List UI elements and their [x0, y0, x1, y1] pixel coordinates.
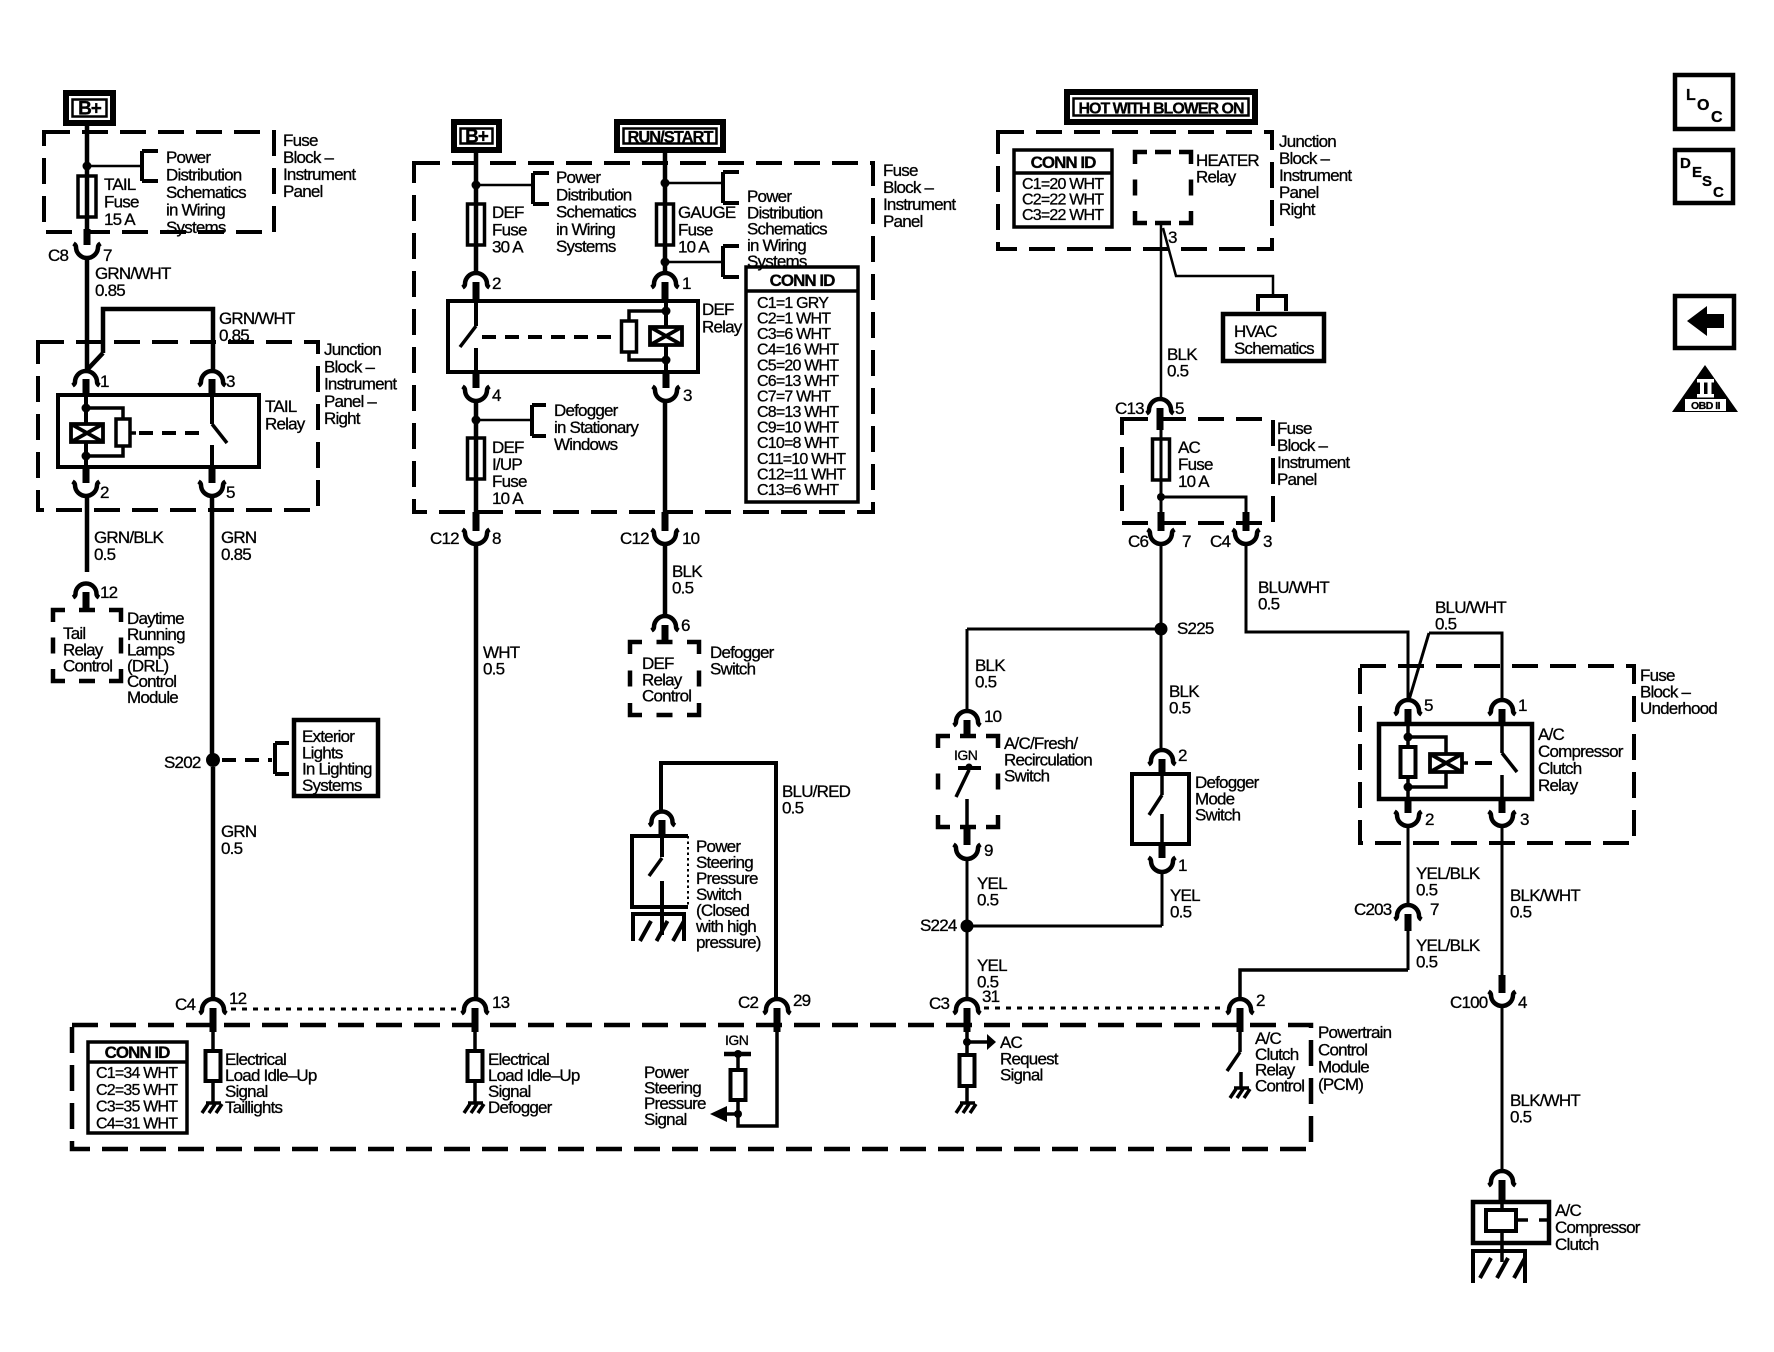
svg-text:6: 6 [681, 616, 690, 635]
wire C3 into PCM [965, 1032, 969, 1055]
svg-text:S225: S225 [1177, 619, 1214, 638]
svg-text:C4: C4 [175, 995, 195, 1014]
connector pin 10 stub [964, 720, 971, 738]
defog mode switch lower lead [1160, 814, 1164, 844]
DEF relay pin 3 stub [663, 372, 670, 388]
wire TAIL relay coil lead [84, 395, 88, 467]
svg-text:B+: B+ [465, 127, 489, 148]
PSP signal arrowhead [710, 1106, 727, 1122]
recirc switch blade [956, 770, 969, 797]
svg-text:IGN: IGN [954, 747, 977, 763]
icon back-arrow [1687, 306, 1724, 336]
svg-text:D: D [1680, 155, 1691, 172]
svg-text:1: 1 [682, 274, 691, 293]
bracket Power Distribution (GAUGE) [723, 172, 739, 203]
wire pin 4 through DEF I/UP fuse to C12-8 [474, 401, 479, 520]
connector pin 1 stub (defog mode) [1159, 844, 1166, 858]
wire C203 to PCM pin 2 [1407, 931, 1410, 970]
resistor DEF relay [622, 321, 637, 352]
coil nub A/C relay [1462, 761, 1468, 765]
icon OBD II label box [1685, 399, 1726, 411]
power symbol HOT WITH BLOWER ON [1067, 92, 1255, 122]
connector C12 pin 8 stub [473, 512, 480, 531]
wire pin 2 YEL/BLK to C203 [1407, 826, 1410, 905]
wire GRN/WHT loop to relay pin 3 [103, 309, 213, 370]
svg-text:1: 1 [1518, 696, 1527, 715]
wire node to CONN ID bracket [665, 261, 723, 264]
fuse block instrument panel dashed box (AC) [1122, 419, 1273, 523]
ground A/C clutch relay control [1230, 1088, 1250, 1098]
svg-text:5: 5 [1175, 399, 1184, 418]
coil A/C compressor clutch [1486, 1210, 1516, 1231]
wire loop diagonal into pin 1 [87, 353, 103, 370]
wire C4-3 BLU/WHT to relay pin 5 [1246, 544, 1408, 701]
svg-text:3: 3 [226, 372, 235, 391]
connector C6 pin 7 stub [1158, 512, 1165, 531]
A/C relay coil branch [1408, 737, 1446, 787]
AC request arrowhead [987, 1034, 996, 1050]
svg-text:3: 3 [1520, 810, 1529, 829]
table CONN ID PCM [88, 1042, 187, 1133]
svg-text:O: O [1697, 97, 1709, 114]
ground taillights [202, 1103, 222, 1113]
dashed armature link A/C relay [1475, 761, 1496, 765]
svg-text:5: 5 [226, 483, 235, 502]
dotted same-connector line C3-31 to 2 [984, 1007, 1226, 1010]
connector C12 pin 10 stub [662, 512, 669, 531]
svg-text:TAILFuse15 A: TAILFuse15 A [104, 175, 139, 229]
svg-text:4: 4 [492, 386, 501, 405]
svg-text:C6: C6 [1128, 532, 1148, 551]
connector C4 pin 3 cup [1233, 530, 1260, 545]
PSP switch blade [649, 858, 662, 876]
node below GAUGE fuse [661, 258, 670, 267]
svg-text:2: 2 [1256, 991, 1265, 1010]
connector C8 pin 7 cup [74, 244, 101, 259]
connector C2 pin 29 stub [774, 1008, 781, 1032]
coil link dashes [1517, 1218, 1548, 1222]
TAIL relay pin 1 cap [73, 371, 100, 386]
node junction below B+ (middle) [472, 181, 481, 190]
PSP switch upper lead [660, 836, 664, 857]
svg-text:31: 31 [982, 987, 1000, 1006]
defog mode switch blade [1149, 795, 1162, 815]
node coil top [82, 404, 91, 413]
icon DESC box [1675, 150, 1733, 203]
wire C2-29 loop inside PCM [738, 1032, 777, 1126]
DEF relay switch lower lead [474, 348, 478, 372]
TAIL relay pin 3 cap [199, 371, 226, 386]
fuse block underhood dashed box [1360, 666, 1634, 843]
connector C12 pin 8 cup [463, 530, 490, 545]
TAIL relay switch blade [212, 424, 227, 443]
PSP switch lower lead [660, 881, 664, 935]
wire RUN/START to GAUGE fuse [663, 153, 668, 273]
connector pin 6 cap [652, 616, 679, 631]
node PSP signal junction [734, 1110, 742, 1118]
svg-text:3: 3 [1168, 228, 1177, 247]
wire C13 to AC fuse [1160, 430, 1163, 514]
relay DEF box [448, 301, 698, 372]
coil X-box A/C relay [1430, 754, 1462, 772]
svg-text:2: 2 [100, 483, 109, 502]
connector pin 2 stub (PCM) [1237, 1008, 1244, 1032]
svg-text:7: 7 [103, 246, 112, 265]
svg-text:12: 12 [229, 989, 247, 1008]
svg-text:C: C [1713, 184, 1724, 201]
svg-text:OBD II: OBD II [1691, 400, 1721, 412]
fuse block instrument panel dashed box (middle) [414, 163, 873, 512]
node AC request junction [963, 1038, 971, 1046]
wire C8 to TAIL relay pin 1 GRN/WHT [85, 258, 90, 371]
splice S202 [206, 753, 220, 767]
node IGN bar (PSP) [734, 1050, 742, 1058]
wire DEF relay coil lead [664, 301, 668, 372]
wire S224 horizontal [967, 925, 1162, 928]
svg-text:DEFI/UPFuse10 A: DEFI/UPFuse10 A [492, 438, 527, 508]
recirc switch lower lead [965, 799, 969, 827]
svg-text:C: C [1711, 109, 1723, 126]
connector pin 12 stub [83, 592, 90, 610]
svg-text:L: L [1686, 87, 1696, 104]
recirculation switch dashed box [938, 736, 998, 827]
TAIL relay switch lower lead [210, 445, 214, 467]
wire clutch to ground [1500, 1243, 1504, 1262]
wire S225 to defogger mode switch [1160, 629, 1163, 751]
IGN feed bar (PSP) [724, 1052, 751, 1057]
defogger switch dashed box DEF Relay Control [630, 642, 699, 715]
A/C relay pin 2 cup [1395, 812, 1422, 827]
power symbol RUN/START [617, 122, 723, 150]
table CONN ID right [1014, 150, 1112, 227]
A/C relay pin 1 stub [1499, 709, 1506, 726]
wire resistor to IGN bar [736, 1055, 740, 1070]
power symbol B+ (defogger circuit) [454, 122, 499, 150]
TAIL relay switch fixed lead [210, 395, 214, 424]
A/C relay switch fixed lead [1500, 724, 1504, 753]
wire B+ to DEF fuse through fuse [474, 153, 479, 273]
svg-text:S224: S224 [920, 916, 957, 935]
svg-text:IGN: IGN [725, 1032, 748, 1048]
bracket Power Distribution (DEF) [533, 173, 549, 204]
node coil bottom [82, 452, 91, 461]
ground defogger load [464, 1103, 484, 1113]
svg-text:C203: C203 [1354, 900, 1392, 919]
A/C relay switch lower lead [1500, 775, 1504, 799]
wire pin 1 YEL to S224 [1161, 872, 1164, 926]
wire C100 BLK/WHT to compressor clutch [1501, 1006, 1504, 1172]
svg-text:C12: C12 [620, 529, 649, 548]
DRL module dashed box Tail Relay Control [53, 610, 121, 681]
svg-text:RUN/START: RUN/START [627, 129, 713, 147]
connector C4 pin 3 stub [1243, 512, 1250, 531]
box power steering pressure switch [632, 836, 688, 907]
svg-text:C4: C4 [1210, 532, 1230, 551]
A/C relay pin 3 cup [1489, 812, 1516, 827]
connector pin 10 cap (recirc) [954, 711, 981, 726]
IGN bar (recirc) [958, 766, 981, 770]
bracket Power Distribution reference [142, 151, 158, 181]
wire C6-7 BLK to S225 [1160, 544, 1163, 629]
connector C13 pin 5 stub [1157, 408, 1164, 430]
wire jumper to pin 1 [1429, 633, 1502, 701]
svg-text:C13: C13 [1115, 399, 1144, 418]
box HVAC Schematics [1223, 314, 1324, 361]
node DEF coil top [662, 307, 671, 316]
connector pin 6 stub [662, 625, 669, 643]
connector C3 pin 31 stub [964, 1008, 971, 1032]
bracket CONN ID (GAUGE) [723, 246, 739, 277]
svg-text:9: 9 [984, 841, 993, 860]
wire heater relay pin 3 to C13 BLK [1160, 223, 1163, 400]
wire S202 to C4 pin 12 [211, 767, 216, 1000]
wire pin5 jumper diagonal [1409, 633, 1429, 700]
wire DEF relay pin 3 down [663, 401, 668, 520]
svg-text:C3: C3 [929, 994, 949, 1013]
dashed armature link DEF relay [482, 335, 612, 339]
relay A/C compressor clutch box [1379, 724, 1532, 799]
DEF relay pin 3 cup [653, 387, 680, 402]
box defogger mode switch [1132, 774, 1189, 844]
wire resistor to ground (taillights) [211, 1081, 215, 1104]
resistor side nub [130, 431, 136, 435]
svg-text:CONN ID: CONN ID [770, 271, 836, 290]
connector pin 9 cup [954, 845, 981, 860]
resistor AC request (PCM) [960, 1055, 975, 1086]
DEF relay pin 2 stub [473, 282, 480, 301]
svg-text:12: 12 [100, 583, 118, 602]
resistor A/C relay [1401, 747, 1416, 777]
node junction below RUN/START [661, 179, 670, 188]
wire pin 5 GRN down to S202 [210, 496, 215, 758]
TAIL relay pin 3 stub [209, 379, 216, 395]
connector C4 pin 12 stub [210, 1008, 217, 1032]
svg-text:E: E [1692, 164, 1702, 181]
svg-text:4: 4 [1518, 993, 1527, 1012]
svg-text:8: 8 [492, 529, 501, 548]
wire junction to bracket (gauge top) [665, 182, 723, 185]
wire S225 to recirculation switch [966, 629, 969, 712]
svg-text:3: 3 [1263, 532, 1272, 551]
A/C relay pin 5 stub [1405, 709, 1412, 726]
wire pin 9 YEL to S224 [966, 859, 969, 926]
relay HEATER dashed box [1135, 152, 1191, 223]
power symbol B+ (battery feed, TAIL circuit) [66, 93, 113, 123]
svg-text:DEFFuse30 A: DEFFuse30 A [492, 203, 527, 257]
compressor clutch connector stub [1499, 1180, 1506, 1202]
svg-text:2: 2 [1178, 746, 1187, 765]
svg-text:3: 3 [683, 386, 692, 405]
DEF relay switch blade [460, 326, 476, 347]
wire C12-8 WHT down to pin 13 [474, 544, 479, 1000]
A/C relay coil lead [1406, 724, 1410, 799]
PSP box dotted right edge [687, 836, 689, 907]
connector C2 pin 29 cap [764, 999, 791, 1014]
node IGN bar (recirc) [966, 764, 973, 771]
connector pin 2 cap (defog mode) [1149, 750, 1176, 765]
wire S224 to C3-31 YEL [966, 926, 969, 1000]
connector C6 pin 7 cup [1148, 530, 1175, 545]
fuse DEF I/UP 10A [468, 438, 485, 479]
bracket HVAC schematics [1256, 296, 1288, 311]
svg-text:2: 2 [1425, 810, 1434, 829]
dotted same-connector line C4-12 to 13 [231, 1008, 462, 1011]
connector pin 13 stub [472, 1008, 479, 1032]
fuse AC 10A [1153, 439, 1170, 480]
compressor clutch connector cap [1489, 1171, 1516, 1186]
svg-text:B+: B+ [78, 99, 102, 120]
svg-text:C2: C2 [738, 993, 758, 1012]
connector pin 13 cap (PCM) [462, 999, 489, 1014]
DEF relay pin 4 cup [463, 387, 490, 402]
svg-text:1: 1 [1178, 856, 1187, 875]
connector C12 pin 10 cup [652, 530, 679, 545]
fuse TAIL 15A [78, 176, 96, 217]
icon back-arrow box [1675, 296, 1734, 348]
TAIL relay resistor branch [86, 408, 123, 456]
node below AC fuse [1157, 493, 1165, 501]
wire B+ to TAIL fuse [85, 126, 90, 236]
DEF relay pin 2 cap [463, 273, 490, 288]
wire pin 2 GRN/BLK [85, 496, 90, 572]
svg-text:7: 7 [1430, 900, 1439, 919]
relay TAIL box [58, 395, 259, 467]
connector C13 pin 5 cap [1147, 399, 1174, 414]
DEF relay switch fixed lead [474, 301, 478, 326]
box A/C compressor clutch [1473, 1202, 1549, 1243]
TAIL relay pin 2 cup [73, 482, 100, 497]
DEF relay pin 1 stub [662, 282, 669, 301]
svg-text:CONN ID: CONN ID [1031, 153, 1097, 172]
PCM dashed box [72, 1025, 1311, 1149]
PSP connector stub [659, 820, 666, 836]
resistor TAIL relay [116, 419, 130, 446]
A/C clutch relay control lower lead [1239, 1072, 1243, 1088]
A/C relay pin 5 cap [1395, 700, 1422, 715]
dashed armature link TAIL relay [139, 431, 205, 435]
svg-text:C12: C12 [430, 529, 459, 548]
svg-text:5: 5 [1424, 696, 1433, 715]
icon LOC box [1675, 75, 1733, 129]
resistor electrical load idle-up taillights [206, 1051, 221, 1081]
PSP connector cap [649, 812, 675, 826]
TAIL relay pin 5 stub [209, 467, 216, 483]
wire resistor to ground (defogger) [473, 1081, 477, 1104]
fuse GAUGE 10A [657, 204, 674, 245]
connector pin 1 cup (defog mode) [1149, 858, 1176, 873]
connector C3 pin 31 cap [954, 999, 981, 1014]
bracket exterior lights [275, 743, 289, 774]
connector C100 pin 4 stub [1499, 975, 1506, 993]
svg-text:S: S [1702, 173, 1712, 190]
wire AC fuse branch to C4-3 [1161, 497, 1246, 516]
A/C relay switch blade [1502, 753, 1517, 772]
resistor IGN pull-up (PSP) [731, 1070, 746, 1100]
DEF relay pin 1 cap [652, 273, 679, 288]
connector pin 2 stub (defog mode) [1159, 759, 1166, 775]
node A/C coil top [1404, 733, 1413, 742]
wire junction to reference bracket [87, 165, 142, 168]
resistor electrical load idle-up defogger [468, 1051, 483, 1081]
junction block dashed box (right) [998, 132, 1272, 249]
icon OBD II pillars [1697, 379, 1714, 398]
svg-text:C1=20 WHTC2=22 WHTC3=22 WHT: C1=20 WHTC2=22 WHTC3=22 WHT [1022, 176, 1104, 224]
svg-text:C1=34 WHTC2=35 WHTC3=35 WHTC4=: C1=34 WHTC2=35 WHTC3=35 WHTC4=31 WHT [96, 1065, 178, 1132]
A/C relay pin 3 stub [1499, 799, 1506, 813]
splice S224 [961, 920, 974, 933]
svg-text:CONN ID: CONN ID [105, 1043, 171, 1062]
node junction below B+ [83, 162, 92, 171]
svg-text:10: 10 [682, 529, 700, 548]
ground rake PSP [631, 914, 686, 941]
svg-text:2: 2 [492, 274, 501, 293]
A/C relay pin 2 stub [1405, 799, 1412, 813]
icon OBD II triangle [1672, 365, 1738, 412]
wire pin 3 BLK/WHT to C100 [1501, 826, 1504, 993]
wire junction to resistor (PCM) [736, 1100, 740, 1114]
resistor DEF relay branch wires [629, 311, 666, 360]
TAIL relay pin 1 stub [83, 379, 90, 395]
wire resistor to ground (AC request) [965, 1086, 969, 1104]
svg-text:C8: C8 [48, 246, 68, 265]
wire into defogger load resistor [473, 1032, 477, 1051]
wire S225 branch left [967, 628, 1161, 631]
wire into taillight load resistor [211, 1032, 215, 1051]
node DEF coil bottom [662, 356, 671, 365]
wire junction to bracket (middle B+) [476, 184, 533, 187]
fuse DEF 30A [468, 204, 485, 245]
defog mode switch upper lead [1160, 774, 1164, 795]
ground rake compressor clutch [1471, 1251, 1527, 1283]
wire C12-10 BLK to pin 6 [663, 544, 668, 617]
A/C clutch relay control blade [1227, 1052, 1240, 1071]
connector C4 pin 12 cap [200, 999, 227, 1014]
svg-text:C100: C100 [1450, 993, 1488, 1012]
coil X-box DEF relay [650, 327, 682, 345]
splice S225 [1155, 623, 1168, 636]
TAIL relay pin 2 stub [83, 467, 90, 483]
wire to defogger bracket [476, 419, 532, 422]
connector C203 pin 7 cap [1395, 905, 1422, 920]
wire BLU/RED loop PSP to C2 [661, 763, 776, 1000]
A/C relay pin 1 cap [1489, 700, 1516, 715]
bracket Defogger in Stationary Windows [532, 405, 546, 436]
compressor clutch coil lead [1500, 1202, 1504, 1243]
svg-text:HOT WITH BLOWER ON: HOT WITH BLOWER ON [1078, 101, 1244, 118]
connector C8 pin 7 stub [84, 229, 91, 245]
wire PCM pin 2 loop to C203 [1240, 970, 1408, 1000]
fuse block instrument panel dashed box (left) [44, 132, 274, 232]
node defogger stationary branch [472, 416, 481, 425]
dashed link S202 to lighting systems [222, 758, 272, 762]
ground AC request [956, 1103, 976, 1113]
AC request arrow line [967, 1040, 988, 1044]
A/C clutch relay control lead [1238, 1032, 1242, 1052]
PSP signal arrow line [726, 1112, 738, 1116]
svg-text:1: 1 [100, 372, 109, 391]
coil X-box TAIL relay [71, 424, 103, 442]
svg-text:10: 10 [984, 707, 1002, 726]
TAIL relay pin 5 cup [199, 482, 226, 497]
connector pin 2 cap (PCM) [1227, 999, 1254, 1014]
svg-text:29: 29 [793, 991, 811, 1010]
svg-text:7: 7 [1182, 532, 1191, 551]
connector pin 12 cap [73, 584, 99, 598]
junction block instrument panel right dashed box (left) [38, 342, 318, 510]
connector C203 pin 7 stub [1405, 914, 1412, 931]
box Exterior Lights In Lighting Systems [294, 720, 378, 796]
connector pin 9 stub [964, 827, 971, 845]
